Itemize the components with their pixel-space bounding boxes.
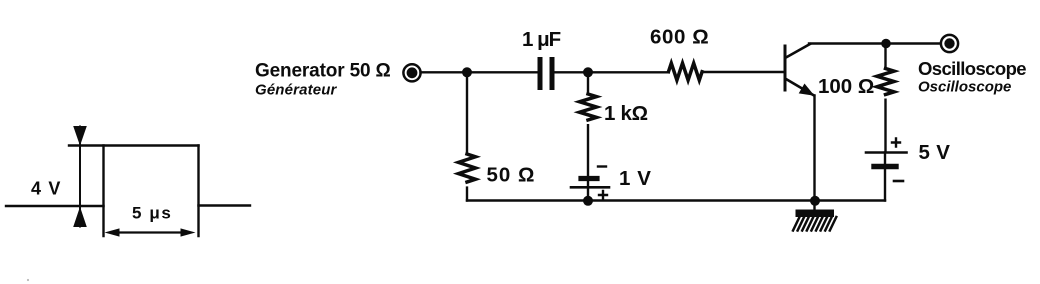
battery B1 plus sign (599, 191, 607, 199)
speck (scan artifact) (27, 279, 29, 281)
capacitor C1 1uF plate left (538, 60, 543, 88)
battery B1 minus sign (598, 165, 606, 167)
svg-text:600 Ω: 600 Ω (650, 26, 709, 49)
transistor Q1 base bar (784, 46, 787, 90)
wire: capacitor to 600 ohm resistor (554, 71, 668, 73)
svg-text:1 V: 1 V (619, 167, 652, 190)
pulse waveform baseline right (199, 204, 251, 206)
svg-text:5 μs: 5 μs (132, 204, 172, 223)
node: ground junction on bottom rail (810, 196, 820, 206)
svg-text:Oscilloscope: Oscilloscope (918, 58, 1026, 79)
node: base network junction (583, 67, 593, 77)
ground stub (813, 201, 815, 210)
wire: terminal to capacitor (421, 71, 538, 73)
battery B2 plus sign (892, 139, 900, 147)
bottom rail wire (467, 199, 885, 201)
svg-text:4 V: 4 V (31, 179, 62, 199)
wire: junction down to 1k resistor (587, 72, 589, 94)
wire: 5V battery to bottom rail (884, 153, 886, 201)
wire: 600 ohm to transistor base (702, 71, 783, 73)
input terminal J1 (Generator) (403, 64, 420, 81)
5 us width dimension arrow (117, 231, 183, 233)
svg-text:5 V: 5 V (919, 141, 951, 164)
node: bottom rail junction at battery (583, 196, 593, 206)
battery B1 1V long plate (positive, bottom) (571, 186, 609, 189)
svg-text:Generator 50 Ω: Generator 50 Ω (255, 61, 391, 82)
battery B2 5V long plate (positive, top) (866, 151, 907, 154)
battery B1 1V short plate (negative, top) (581, 176, 597, 181)
output terminal (Oscilloscope) (941, 35, 958, 52)
transistor Q1 emitter lead (786, 79, 814, 96)
4 V dimension arrowhead top (73, 126, 87, 146)
battery B2 5V short plate (negative, bottom) (874, 164, 896, 169)
pulse falling edge (with extension line) (197, 146, 199, 237)
wire: 50 ohm resistor to bottom rail (466, 188, 468, 201)
svg-text:100 Ω: 100 Ω (818, 75, 874, 98)
svg-text:1 kΩ: 1 kΩ (604, 102, 648, 125)
ground hatching (793, 217, 836, 231)
wire: 100 ohm resistor to 5V battery (884, 100, 886, 152)
pulse waveform baseline left (6, 205, 104, 207)
resistor 100 ohm (877, 69, 894, 95)
battery B2 minus sign (894, 180, 903, 183)
svg-text:1 μF: 1 μF (522, 28, 561, 51)
pulse rising edge (with extension line) (102, 146, 104, 237)
pulse top level line (69, 144, 199, 146)
capacitor C1 1uF plate right (550, 60, 555, 88)
wire: junction down to 100 ohm resistor (884, 44, 886, 69)
wire: 1V battery to bottom rail (587, 187, 589, 200)
resistor 50 ohm (459, 154, 476, 182)
4 V amplitude dimension line (79, 127, 81, 227)
resistor 600 ohm (669, 63, 703, 80)
collector top rail wire (809, 42, 940, 44)
wire: emitter down to ground rail (813, 96, 815, 201)
node: collector junction (881, 39, 891, 49)
node: input junction (462, 67, 472, 77)
ground bar (796, 210, 835, 218)
svg-text:Générateur: Générateur (255, 82, 338, 99)
svg-text:50 Ω: 50 Ω (487, 164, 536, 187)
transistor Q1 collector lead (786, 44, 810, 58)
wire: junction down to 50 ohm resistor (466, 72, 468, 154)
4 V dimension arrowhead bottom (73, 207, 87, 227)
wire: 1k resistor to 1V battery (587, 125, 589, 187)
transistor Q1 emitter arrowhead (799, 84, 815, 96)
resistor 1 kohm (580, 94, 597, 120)
svg-text:Oscilloscope: Oscilloscope (918, 79, 1011, 96)
